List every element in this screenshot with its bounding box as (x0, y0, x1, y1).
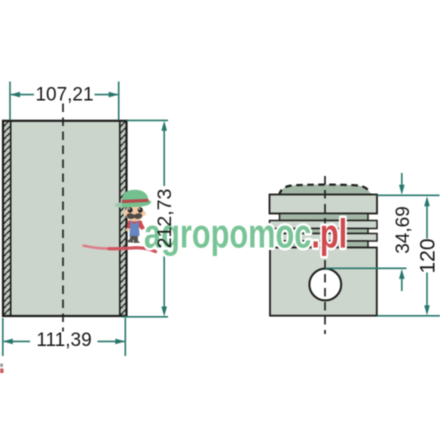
dimension 34,69 top arrow (401, 173, 403, 185)
piston groove 3 (280, 241, 369, 248)
dimension 212,73 line + arrows (163, 130, 165, 186)
cylinder liner interior (11, 121, 120, 317)
svg-text:212,73: 212,73 (154, 189, 176, 249)
piston bottom reference line (377, 315, 440, 317)
cylinder wall inner lines (10, 121, 12, 316)
boots (130, 236, 140, 244)
watermark mascot (115, 190, 152, 243)
red shirt + arms (127, 221, 131, 229)
piston groove 1 (280, 214, 369, 221)
piston top reference line (377, 194, 440, 196)
hands (126, 228, 129, 231)
dimension 107,21 extension lines (9, 82, 11, 120)
eyes (128, 207, 133, 213)
blue overalls (129, 223, 139, 236)
cylinder left wall (hatched) (3, 121, 11, 317)
svg-text:111,39: 111,39 (36, 330, 91, 351)
corner watermark speck (0, 364, 3, 368)
mustache (127, 213, 143, 219)
piston ring land 1 (270, 221, 378, 229)
svg-text:120: 120 (417, 238, 440, 273)
dimension 107,21 line + arrows (11, 94, 34, 96)
piston pin bore (309, 269, 341, 301)
watermark red swoosh (84, 246, 112, 249)
cylinder outline (3, 121, 127, 316)
cylinder right wall (hatched) (120, 121, 127, 317)
face (123, 211, 127, 215)
svg-text:107,21: 107,21 (35, 84, 93, 105)
dimension 120 line + arrows (426, 206, 428, 239)
piston ring land 2 (270, 234, 378, 242)
cylinder centerline (62, 104, 64, 332)
piston centerline (324, 176, 326, 334)
dimension 111,39 line + arrows (4, 340, 30, 342)
hat crown (122, 190, 148, 200)
hat band (122, 199, 149, 203)
pin bore tangent reference line (325, 267, 406, 269)
piston groove 2 (280, 229, 369, 234)
svg-text:34,69: 34,69 (393, 206, 414, 254)
dimension 111,39 extension lines (2, 318, 4, 356)
piston crown (279, 185, 371, 196)
hat brim tip fade over liner (115, 202, 126, 207)
dimension 34,69 bottom arrow (399, 269, 405, 279)
piston top land (270, 195, 378, 214)
hat brim (115, 201, 152, 208)
piston body (270, 248, 377, 316)
dimension 212,73 extension lines (127, 119, 169, 121)
